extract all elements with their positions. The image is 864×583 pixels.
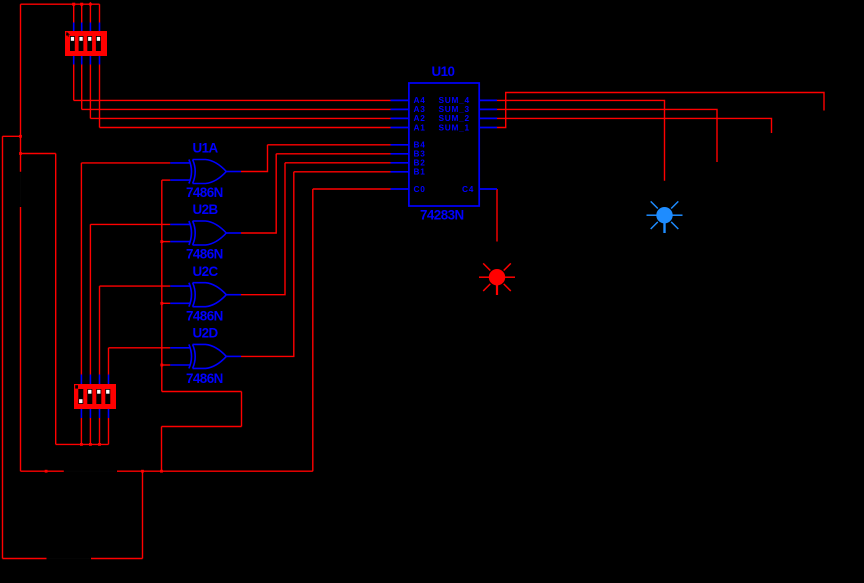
wire U2C input2 stub <box>162 302 171 304</box>
svg-text:C4: C4 <box>462 184 474 194</box>
wire mid bottom vertical <box>142 471 144 558</box>
junction S2 bus pin3 <box>98 443 101 446</box>
wire A1 row <box>100 127 391 129</box>
wire S1 pin1 bottom <box>73 65 75 101</box>
pin B3 stub <box>391 153 410 155</box>
wire row471 left <box>21 470 64 472</box>
pin A4 stub <box>391 99 410 101</box>
wire S1 pin3 top <box>89 4 91 22</box>
xor gate U2D <box>170 344 241 368</box>
wire S2 pin2 top vertical <box>89 224 91 374</box>
wire SUB net jog down <box>161 427 163 472</box>
junction U2D input2 <box>160 364 163 367</box>
junction U2B input2 <box>160 240 163 243</box>
probe X1 blue lit <box>647 201 683 233</box>
wire U2D input2 stub <box>162 364 171 366</box>
wire S2 pin1 bottom <box>80 418 82 444</box>
wire S2 pin1 top vertical <box>80 163 82 375</box>
pin B1 stub <box>391 171 410 173</box>
wire A4 row <box>74 99 391 101</box>
wire U2C output <box>241 163 285 295</box>
wire SUM_2 net <box>497 118 772 133</box>
junction dots <box>19 2 163 473</box>
dip switch S2 pins blue <box>81 375 108 419</box>
junction row471 at 46 <box>45 470 48 473</box>
source V1 (black) <box>47 558 90 560</box>
junction top bus pin3 diamond <box>88 2 93 7</box>
pin B2 stub <box>391 162 410 164</box>
wire row471 right <box>117 470 313 472</box>
xor gate U1A <box>170 160 241 184</box>
wire SUM_1 net <box>497 93 824 128</box>
wire C0 vertical <box>312 189 314 471</box>
junction row471 at 161 <box>160 470 163 473</box>
svg-text:7486N: 7486N <box>186 185 223 200</box>
wire S2 pin2 bottom <box>89 418 91 444</box>
junction S2 bus pin2 <box>89 443 92 446</box>
wire S1 pin4 top <box>99 4 101 22</box>
wire SUM_4 net <box>497 100 665 180</box>
svg-text:U2C: U2C <box>193 264 219 279</box>
pin SUM_2 stub <box>479 117 497 119</box>
svg-text:U2D: U2D <box>193 326 219 341</box>
wire S1 pin1 top <box>73 4 75 22</box>
wire A2 row <box>90 117 390 119</box>
wire S1 pin2 bottom <box>81 65 83 110</box>
wire B4 row <box>268 144 391 146</box>
pin A2 stub <box>391 117 410 119</box>
pin A3 stub <box>391 108 410 110</box>
wire S2 return vertical <box>55 154 57 445</box>
wire switch J1 bottom vertical <box>20 207 22 471</box>
switch J1 (black) <box>20 173 22 206</box>
wire U2B input1 row <box>90 223 170 225</box>
wire branch to far-left vertical <box>3 135 21 137</box>
svg-text:7486N: 7486N <box>186 371 223 386</box>
wire B2 row <box>285 162 391 164</box>
wire U2B input2 stub <box>162 241 171 243</box>
wire far-left long vertical <box>2 136 4 558</box>
svg-text:B1: B1 <box>414 167 426 177</box>
wire S1 pin2 top <box>81 4 83 22</box>
xor gate U2B <box>170 221 241 245</box>
wire top bus <box>21 3 100 5</box>
wire S1 pin3 bottom <box>89 65 91 119</box>
switch J2 (black) <box>65 470 117 472</box>
svg-text:U10: U10 <box>432 64 455 79</box>
wire bottom bus right <box>91 558 143 560</box>
wire U2C input1 row <box>100 285 171 287</box>
wire C0 row <box>313 188 391 190</box>
pin SUM_1 stub <box>479 127 497 129</box>
wire U1A input2 stub <box>162 179 171 181</box>
wire C4 to probe <box>496 189 498 242</box>
wire S1 pin4 bottom <box>99 65 101 128</box>
wire S2 pin4 top vertical <box>108 348 110 375</box>
pin B4 stub <box>391 144 410 146</box>
hidden black components (invisible on black) <box>21 173 117 559</box>
dip switch S2 <box>74 384 116 409</box>
dip switch S1 <box>65 31 107 56</box>
wire SUB net jog bottom <box>162 426 242 428</box>
wire B3 row <box>276 153 390 155</box>
wire SUM_3 net <box>497 109 717 162</box>
junction S2 bus pin1 <box>80 443 83 446</box>
wire B1 row <box>294 171 391 173</box>
pin C0 stub <box>391 188 410 190</box>
wire S2 bottom bus <box>56 443 109 445</box>
junction top bus pin1 <box>72 3 75 6</box>
pin SUM_4 stub <box>479 99 497 101</box>
wire branch to S2 return <box>21 153 56 155</box>
svg-text:A1: A1 <box>414 122 426 132</box>
svg-text:SUM_1: SUM_1 <box>439 122 470 132</box>
junction top bus pin2 <box>80 3 83 6</box>
wire U1A input1 row <box>81 162 170 164</box>
svg-text:C0: C0 <box>414 184 426 194</box>
xor gate U2C <box>170 283 241 307</box>
IC U10 74283N box <box>409 83 479 206</box>
wire A3 row <box>82 108 391 110</box>
wire S2 pin3 bottom <box>99 418 101 444</box>
probe X2 red lit <box>479 263 515 295</box>
junction U2C input2 <box>160 302 163 305</box>
wire U2B output <box>241 154 276 233</box>
pin C4 stub <box>479 188 497 190</box>
svg-text:U2B: U2B <box>193 202 219 217</box>
svg-text:74283N: 74283N <box>420 207 464 222</box>
svg-text:7486N: 7486N <box>186 308 223 323</box>
pin SUM_3 stub <box>479 108 497 110</box>
wire U2D input1 row <box>109 347 171 349</box>
svg-text:U1A: U1A <box>193 141 219 156</box>
pin A1 stub <box>391 127 410 129</box>
wire SUB net jog right <box>241 392 243 427</box>
dip switch S1 pins blue <box>74 23 100 65</box>
junction left vertical 153 <box>19 152 22 155</box>
svg-text:7486N: 7486N <box>186 247 223 262</box>
junction left vertical 136 <box>19 135 22 138</box>
wire left vertical from top bus <box>20 4 22 172</box>
wire S2 pin3 top vertical <box>99 286 101 374</box>
wire U2D output <box>241 172 294 357</box>
wire SUB net jog top <box>162 391 242 393</box>
wire bottom bus left <box>3 558 47 560</box>
junction row471 at 142 <box>141 470 144 473</box>
wire U1A output <box>241 145 268 172</box>
wire S2 pin4 bottom <box>108 418 110 444</box>
wire SUB net vertical <box>161 180 163 391</box>
